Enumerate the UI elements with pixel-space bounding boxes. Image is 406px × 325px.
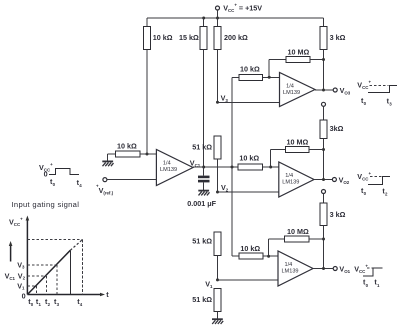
node V1 bbox=[205, 278, 219, 289]
svg-text:10 MΩ: 10 MΩ bbox=[287, 137, 309, 146]
svg-text:51 kΩ: 51 kΩ bbox=[192, 236, 212, 245]
graph ramp dashed continuation bbox=[70, 240, 82, 251]
junction 10M / 3k / Vo2 bbox=[322, 148, 325, 151]
op-amp U3 1/4 LM139 (middle comparator) bbox=[279, 162, 314, 197]
wire junction to U1 bbox=[147, 153, 156, 155]
terminal (top of 3k pull-up for U4) bbox=[322, 190, 326, 194]
node V2 bbox=[216, 183, 229, 194]
svg-text:1/4: 1/4 bbox=[285, 262, 293, 268]
input gating waveform annotation bbox=[39, 162, 82, 188]
junction on rail at 15k bbox=[202, 17, 205, 20]
resistor 3k pull-up (Vo1 node) bbox=[320, 194, 346, 269]
waveform Vo3 bbox=[357, 80, 397, 107]
output node Vo3 bbox=[315, 86, 351, 96]
ground (capacitor) bbox=[198, 191, 209, 196]
svg-text:10 kΩ: 10 kΩ bbox=[239, 153, 259, 162]
node V3 bbox=[216, 93, 228, 103]
resistor 200k (Vcc to V3) bbox=[214, 18, 248, 102]
svg-text:3 kΩ: 3 kΩ bbox=[330, 210, 346, 219]
junction 10M / 3k / Vo3 bbox=[322, 58, 325, 61]
svg-text:0.001 μF: 0.001 μF bbox=[187, 199, 216, 208]
svg-text:3 kΩ: 3 kΩ bbox=[330, 33, 346, 42]
junction at U1 + input bbox=[146, 153, 149, 156]
op-amp U4 1/4 LM139 (bottom comparator) bbox=[278, 251, 313, 286]
junction U3 + input / 10M bbox=[269, 166, 272, 169]
svg-text:10 kΩ: 10 kΩ bbox=[240, 244, 260, 253]
op-amp U1 1/4 LM139 (gating comparator) bbox=[156, 150, 193, 186]
graph y-axis bbox=[26, 216, 30, 295]
graph ramp VC1 bbox=[27, 250, 70, 294]
graph x-axis bbox=[27, 290, 109, 299]
junction 10M / 3k / Vo1 bbox=[322, 238, 325, 241]
junction U4 + input / 10M bbox=[267, 255, 270, 258]
svg-text:Input gating signal: Input gating signal bbox=[12, 200, 80, 209]
svg-text:1/4: 1/4 bbox=[285, 173, 293, 179]
graph V1 dashed threshold bbox=[27, 286, 36, 295]
ground (left 10k) bbox=[102, 161, 113, 166]
svg-text:51 kΩ: 51 kΩ bbox=[192, 295, 212, 304]
svg-text:0: 0 bbox=[22, 291, 26, 300]
junction on rail at Vcc bbox=[216, 17, 219, 20]
svg-text:10 MΩ: 10 MΩ bbox=[287, 227, 309, 236]
resistor 3k pull-up (rail to Vo3 node) bbox=[320, 18, 346, 90]
resistor 51k (V2 to V1) bbox=[192, 232, 221, 280]
svg-text:0: 0 bbox=[44, 170, 48, 179]
junction VC1 / bus bbox=[231, 166, 234, 169]
wire V1 to U4 inverting input bbox=[218, 279, 279, 281]
svg-text:1/4: 1/4 bbox=[286, 83, 294, 89]
resistor 3k pull-up (Vo2 node) bbox=[320, 106, 344, 179]
svg-text:10 kΩ: 10 kΩ bbox=[153, 33, 173, 42]
resistor 10k (bus to U4 + input) bbox=[239, 244, 278, 259]
svg-text:LM139: LM139 bbox=[160, 167, 177, 173]
graph x labels t0 t1 t2 t3 t4 bbox=[28, 297, 83, 307]
svg-text:51 kΩ: 51 kΩ bbox=[192, 143, 212, 152]
capacitor 0.001uF bbox=[187, 167, 216, 208]
svg-text:1/4: 1/4 bbox=[163, 160, 171, 166]
resistor 10k (bus to U2 + input) bbox=[239, 65, 280, 81]
graph Vcc dashed level bbox=[27, 239, 82, 241]
wire V3 to U2 inverting input bbox=[218, 101, 280, 103]
terminal (top of 3k pull-up for U3) bbox=[322, 102, 326, 106]
output node Vo2 bbox=[314, 175, 350, 185]
+Vref input terminal bbox=[96, 178, 156, 196]
ground (bottom of 51k chain) bbox=[212, 319, 223, 324]
wire V2 to U3 inverting input bbox=[218, 191, 279, 193]
Vcc supply terminal bbox=[216, 2, 263, 18]
resistor 10k (U1 input to ground) bbox=[108, 142, 148, 162]
bus wire VC1 to top/bottom 10k inputs bbox=[231, 77, 233, 256]
graph dashed vertical at t4 bbox=[81, 240, 83, 295]
junction VC1 / 15k / capacitor bbox=[202, 166, 205, 169]
svg-text:10 kΩ: 10 kΩ bbox=[240, 65, 260, 74]
junction U2 + input / 10M bbox=[268, 76, 271, 79]
graph V3 dashed threshold bbox=[27, 265, 57, 295]
svg-text:15 kΩ: 15 kΩ bbox=[179, 33, 199, 42]
resistor 10M (U4 positive feedback) bbox=[269, 227, 324, 256]
resistor 10M (U2 positive feedback) bbox=[269, 47, 323, 77]
svg-text:10 MΩ: 10 MΩ bbox=[288, 47, 310, 56]
waveform Vo1 bbox=[354, 264, 382, 289]
svg-text:3kΩ: 3kΩ bbox=[330, 124, 344, 133]
graph VC1 rising arrow bbox=[9, 241, 13, 262]
Vcc rail wire bbox=[147, 17, 324, 19]
graph V2 dashed threshold bbox=[27, 276, 46, 295]
svg-text:200 kΩ: 200 kΩ bbox=[224, 33, 248, 42]
resistor 10M (U3 positive feedback) bbox=[271, 137, 324, 167]
svg-text:LM139: LM139 bbox=[282, 179, 299, 185]
resistor 15k (rail to VC1) bbox=[179, 18, 207, 167]
graph ramp reset vertical bbox=[69, 250, 71, 294]
resistor 51k (V1 to ground) bbox=[192, 289, 221, 320]
resistor 51k (V3 to V2) bbox=[192, 136, 221, 192]
waveform Vo2 bbox=[357, 171, 390, 197]
svg-text:LM139: LM139 bbox=[281, 268, 298, 274]
output node Vo1 bbox=[313, 264, 351, 274]
node VC1 (output of U1) wire bbox=[190, 158, 238, 168]
resistor 10k (VC1 to U3 + input) bbox=[238, 153, 279, 170]
op-amp U2 1/4 LM139 (top comparator) bbox=[280, 73, 316, 107]
svg-text:10 kΩ: 10 kΩ bbox=[117, 142, 137, 151]
svg-text:LM139: LM139 bbox=[283, 90, 300, 96]
resistor 10k (rail to U1 + input) bbox=[144, 18, 173, 154]
